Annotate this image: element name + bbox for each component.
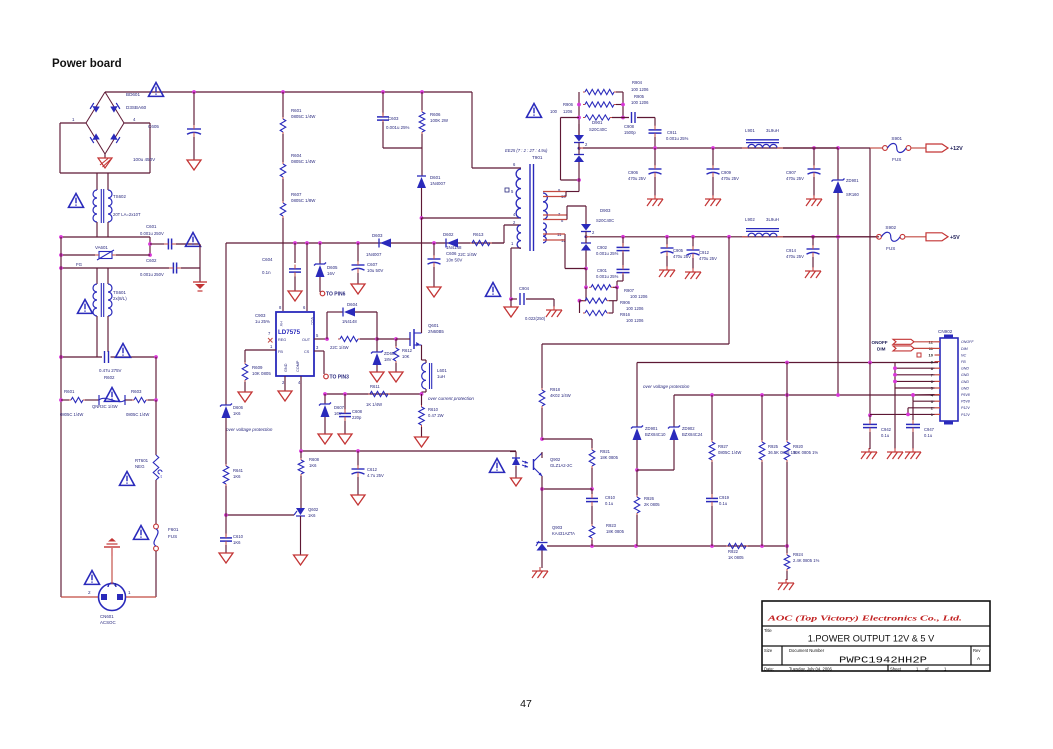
wire C914 top <box>812 237 814 246</box>
svg-text:GLZ1A2-2C: GLZ1A2-2C <box>550 463 572 468</box>
wire D606 drop <box>225 243 227 405</box>
svg-text:220p: 220p <box>352 415 362 420</box>
ground bridge <box>98 158 112 168</box>
label TS602 value <box>113 212 141 217</box>
label T901 <box>532 155 543 160</box>
junction <box>584 267 588 271</box>
junction <box>621 235 625 239</box>
D901 junction <box>578 147 581 150</box>
svg-text:C903: C903 <box>255 313 266 318</box>
wire line to C603b <box>61 356 102 358</box>
wire pin4 comp down <box>300 376 302 451</box>
svg-text:C603: C603 <box>388 116 399 121</box>
svg-text:R922: R922 <box>728 549 739 554</box>
junction <box>893 366 897 370</box>
wire C912 bottom <box>692 258 694 269</box>
port +12V <box>926 144 963 152</box>
wire pin8 <box>895 367 935 369</box>
wire pin3 <box>314 350 324 352</box>
svg-text:R925: R925 <box>768 444 779 449</box>
wire pin2 gnd <box>284 376 286 391</box>
svg-text:COMP: COMP <box>296 360 300 372</box>
junction <box>343 392 347 396</box>
wire C911 to rail <box>654 137 656 148</box>
junction <box>305 241 309 245</box>
label R921 <box>600 449 619 460</box>
transistor opto Q902 <box>522 453 542 476</box>
svg-text:C912: C912 <box>699 250 710 255</box>
label D603 <box>372 233 383 238</box>
wire pin1 stub <box>511 247 521 249</box>
ground ZD602 <box>370 372 384 382</box>
svg-text:100 1206: 100 1206 <box>631 87 649 92</box>
svg-text:Q903: Q903 <box>552 525 563 530</box>
junction <box>59 266 63 270</box>
junction <box>420 392 424 396</box>
svg-text:BD601: BD601 <box>126 92 140 97</box>
wire D605 top <box>319 243 321 264</box>
junction <box>760 393 764 397</box>
wire C601 left <box>150 243 164 245</box>
wire rail after L902 <box>783 236 838 238</box>
wire 12V rail <box>583 147 870 149</box>
label C605 value <box>133 157 156 162</box>
varistor RV601 <box>99 395 125 405</box>
label R609 <box>252 365 271 376</box>
resistor R603 <box>132 397 148 402</box>
svg-text:ONOFF: ONOFF <box>961 340 974 344</box>
wire opto E <box>541 476 543 489</box>
wire pin5 <box>314 338 327 340</box>
junction <box>590 487 594 491</box>
junction <box>325 337 329 341</box>
label D601 <box>430 175 446 186</box>
junction <box>893 380 897 384</box>
wire pin11-12 tie <box>564 234 566 269</box>
svg-text:100: 100 <box>550 109 558 114</box>
svg-text:ZD901: ZD901 <box>645 426 658 431</box>
ground CN902 gnd pins <box>887 448 903 459</box>
svg-text:C604: C604 <box>262 257 273 262</box>
wire C910 top <box>591 489 593 494</box>
svg-text:1K6: 1K6 <box>233 411 241 416</box>
label ZD904 <box>682 426 695 431</box>
label R601 value <box>60 412 83 417</box>
label C605 <box>148 124 159 129</box>
label R608 <box>309 457 320 468</box>
label R614 value <box>330 345 349 350</box>
svg-text:C911: C911 <box>667 130 677 135</box>
wire VCC to pin6 <box>306 243 308 311</box>
svg-text:3L9uH: 3L9uH <box>766 128 779 133</box>
capacitor C901 <box>617 265 630 277</box>
svg-text:Tuesday, July 04, 2006: Tuesday, July 04, 2006 <box>789 666 833 671</box>
wire D903 tap <box>586 236 590 238</box>
wire left vertical <box>60 237 62 597</box>
varistor VA601 <box>95 250 116 260</box>
label Q602 <box>308 507 319 518</box>
svg-text:R606: R606 <box>430 112 441 117</box>
wire pin9-10 tie <box>565 192 567 197</box>
svg-text:R602: R602 <box>104 375 115 380</box>
wire D901 top <box>578 124 580 135</box>
label C608 <box>352 409 363 420</box>
junction <box>584 285 588 289</box>
wire bridge to ground <box>104 154 106 158</box>
svg-text:C612: C612 <box>367 467 378 472</box>
label C942 <box>881 427 892 438</box>
svg-text:DIM: DIM <box>961 347 968 351</box>
wire pin1 gnd <box>510 299 512 307</box>
wire box bottom <box>60 172 150 174</box>
wire C606 top <box>433 243 435 256</box>
svg-text:TO PIN6: TO PIN6 <box>326 292 346 298</box>
wire jog L601b <box>422 391 427 393</box>
wire aux bus <box>226 242 504 244</box>
wire to R926 <box>636 470 638 495</box>
ground D607 <box>318 434 332 444</box>
wire pin2 <box>908 407 935 409</box>
wire LED lead <box>515 452 517 459</box>
capacitor C947 <box>906 420 920 432</box>
wire trio right top <box>616 281 618 287</box>
junction <box>785 393 789 397</box>
wire R604-R607 <box>282 179 284 201</box>
ground C907 <box>806 195 822 206</box>
zener D605 <box>314 263 326 278</box>
svg-text:TS602: TS602 <box>113 194 126 199</box>
label D604 <box>347 302 358 307</box>
svg-text:0.1u: 0.1u <box>881 433 890 438</box>
svg-text:3L9uH: 3L9uH <box>766 217 779 222</box>
wire to D601 <box>421 148 423 176</box>
ground C947 <box>905 448 921 459</box>
capacitor C612 <box>352 465 365 477</box>
junction <box>318 241 322 245</box>
label C906 <box>628 170 646 181</box>
wire C904 left <box>511 298 517 300</box>
to-pin marker TO PIN6 <box>320 291 345 297</box>
svg-text:1: 1 <box>128 590 131 595</box>
wire pin12 <box>914 341 935 343</box>
wire C907 top <box>813 148 815 166</box>
wire C603 top <box>382 92 384 115</box>
wire to S901 <box>870 147 883 149</box>
svg-text:C906: C906 <box>628 170 639 175</box>
wire pin2 stub <box>504 224 521 226</box>
svg-text:C608: C608 <box>352 409 363 414</box>
svg-text:C907: C907 <box>786 170 797 175</box>
junction <box>785 361 789 365</box>
wire to T901 pin6 <box>471 92 473 168</box>
svg-text:R904: R904 <box>632 80 643 85</box>
wire opto C <box>541 452 543 458</box>
svg-text:0.022(250): 0.022(250) <box>525 316 546 321</box>
svg-text:47: 47 <box>520 698 532 710</box>
svg-text:P12V: P12V <box>961 413 970 417</box>
svg-text:+12V: +12V <box>950 146 963 152</box>
svg-text:Size: Size <box>764 648 773 653</box>
transformer TS602 common-mode choke <box>93 189 112 223</box>
thermistor RT601 <box>153 455 162 480</box>
svg-text:D601: D601 <box>430 175 441 180</box>
svg-text:R906: R906 <box>563 102 574 107</box>
svg-text:0.001u 25%: 0.001u 25% <box>596 274 619 279</box>
label Q902 <box>550 457 561 462</box>
svg-text:CN902: CN902 <box>938 329 953 334</box>
junction <box>577 103 581 107</box>
junction <box>375 337 379 341</box>
junction <box>615 285 619 289</box>
resistor R920 <box>784 440 790 462</box>
wire pin7 stub <box>543 214 567 216</box>
svg-text:10: 10 <box>929 353 934 358</box>
wire pin9 h <box>566 191 579 193</box>
wire OVP mid <box>674 394 940 396</box>
capacitor C905 <box>661 244 674 256</box>
wire earth drop <box>199 244 201 282</box>
svg-text:GND: GND <box>961 386 969 390</box>
wire C604 top <box>294 243 296 263</box>
svg-text:FB: FB <box>278 350 283 354</box>
label R925 <box>768 444 797 455</box>
wire CS line <box>325 393 422 395</box>
svg-text:ZD901: ZD901 <box>846 178 859 183</box>
transformer TS601 common-mode choke <box>93 283 112 317</box>
zener D607 <box>319 403 331 418</box>
junction <box>621 103 625 107</box>
junction <box>785 544 789 548</box>
label R906t <box>620 300 631 305</box>
ground KA431 <box>532 567 548 578</box>
svg-text:470u 25V: 470u 25V <box>628 176 646 181</box>
label C907 <box>786 170 804 181</box>
wire RV-R603 <box>125 399 132 401</box>
svg-text:C902: C902 <box>597 245 608 250</box>
svg-text:AOC (Top Victory) Electronics: AOC (Top Victory) Electronics Co., Ltd. <box>766 614 962 623</box>
wire TS601 bottom-right <box>107 316 109 352</box>
svg-text:100 1206: 100 1206 <box>626 306 644 311</box>
svg-text:Date:: Date: <box>764 666 774 671</box>
zener D606 <box>220 404 232 419</box>
svg-text:100 1206: 100 1206 <box>630 294 648 299</box>
zener ZD602 <box>371 351 383 366</box>
wire C919 bottom <box>711 506 713 546</box>
junction <box>710 544 714 548</box>
svg-text:R601: R601 <box>291 108 302 113</box>
wire to R918 <box>541 344 543 388</box>
wire R613 right <box>492 242 504 244</box>
svg-text:KA431AZTA: KA431AZTA <box>552 531 575 536</box>
wire ZD901 bottom <box>837 193 839 237</box>
wire C912 top <box>692 237 694 247</box>
resistor R612 <box>393 346 399 363</box>
svg-text:D605: D605 <box>327 265 338 270</box>
CN902 pin 11 stub <box>935 347 941 349</box>
wire pin12 stub <box>543 239 565 241</box>
svg-text:OUT: OUT <box>302 338 311 342</box>
capacitor C605 <box>187 125 201 137</box>
svg-text:0.1u: 0.1u <box>924 433 933 438</box>
warning triangle bus <box>149 83 164 97</box>
svg-text:C947: C947 <box>924 427 935 432</box>
wire pin1 down <box>510 248 512 299</box>
svg-text:VCC: VCC <box>310 317 314 325</box>
wire C905 bottom <box>666 256 668 267</box>
label R604 <box>291 153 316 164</box>
warning CN601 <box>85 571 100 585</box>
wire R601 left lead <box>61 399 69 401</box>
wire C905 top <box>666 237 668 245</box>
wire R918 to opto <box>541 408 543 439</box>
svg-text:S901: S901 <box>891 136 902 141</box>
junction <box>635 468 639 472</box>
wire C909 bottom <box>712 177 714 196</box>
svg-text:C905: C905 <box>673 248 684 253</box>
junction <box>381 90 385 94</box>
T901 pin5 nc <box>505 188 514 194</box>
earth chassis CN601 <box>104 538 120 556</box>
wire R601-R604 <box>282 134 284 162</box>
wire TS601 top-right <box>107 268 109 284</box>
resistor R923 <box>589 524 595 540</box>
diode D903a <box>581 224 591 232</box>
svg-text:LD7575: LD7575 <box>278 329 301 336</box>
label C910 <box>605 495 616 506</box>
wire R610 top <box>421 394 423 405</box>
wire to RT601 <box>155 400 157 455</box>
junction <box>192 90 196 94</box>
wire R921 top <box>591 439 593 448</box>
svg-text:470u 25V: 470u 25V <box>699 256 717 261</box>
svg-text:VA601: VA601 <box>95 245 108 250</box>
label Q601 <box>428 323 444 334</box>
diode D604 <box>343 308 355 317</box>
wire TS602 bottom-left <box>96 222 98 237</box>
svg-text:FB: FB <box>961 360 966 364</box>
junction <box>836 146 840 150</box>
wire trio right2 <box>612 301 614 313</box>
svg-text:C602: C602 <box>146 258 157 263</box>
wire comp bus <box>301 450 516 452</box>
wire C909 top <box>712 148 714 166</box>
ground C905 <box>659 266 675 277</box>
label R601 <box>64 389 75 394</box>
junction <box>59 235 63 239</box>
svg-text:Document Number: Document Number <box>789 648 825 653</box>
CN902 pin 2 stub <box>935 407 941 409</box>
wire ZD901 top <box>837 148 839 180</box>
wire ref bus <box>547 545 787 547</box>
svg-text:D607: D607 <box>334 405 345 410</box>
capacitor C911 <box>649 126 662 138</box>
wire pin3 down <box>323 351 325 374</box>
svg-text:470u 25V: 470u 25V <box>721 176 739 181</box>
wire line from C603b <box>111 356 157 358</box>
label R922 <box>728 549 744 560</box>
junction <box>812 146 816 150</box>
svg-text:L902: L902 <box>745 217 755 222</box>
wire opto bottom <box>542 488 592 490</box>
ground C906 <box>647 195 663 206</box>
svg-text:2K 0805: 2K 0805 <box>644 502 660 507</box>
bridge rectifier BD601 <box>86 92 124 154</box>
svg-text:0.001u 25%: 0.001u 25% <box>596 251 619 256</box>
svg-text:0805C 1/4W: 0805C 1/4W <box>718 450 741 455</box>
wire R925 bottom <box>761 462 763 546</box>
resistor R610 <box>419 405 425 427</box>
wire R916 right <box>609 312 613 314</box>
resistor R901 <box>583 115 612 120</box>
wire to S902 <box>838 236 877 238</box>
label R602 <box>104 375 115 380</box>
wire C606 bottom <box>433 267 435 287</box>
resistor R903 <box>583 89 616 94</box>
resistor R606 <box>419 110 425 134</box>
wire TS602 pin top-left <box>96 173 98 190</box>
wire ZD904 drop <box>673 395 675 427</box>
svg-text:P12V: P12V <box>961 406 970 410</box>
wire T901 pin6 <box>472 167 521 169</box>
wire R606 top <box>421 92 423 110</box>
ground C914 <box>805 267 821 278</box>
ground C942 <box>861 448 877 459</box>
label D602 <box>443 232 454 237</box>
wire C607 bottom <box>357 273 359 284</box>
capacitor C607 <box>352 261 365 273</box>
capacitor C604x series <box>105 351 109 363</box>
svg-text:0.1n: 0.1n <box>262 270 271 275</box>
label BD601 <box>126 92 140 97</box>
svg-text:1K6: 1K6 <box>309 463 317 468</box>
wire zd join <box>837 394 839 396</box>
ground LD7575 GND <box>278 391 292 401</box>
wire pin6 <box>895 380 935 382</box>
label R601c <box>291 108 316 119</box>
fuse F601 <box>154 524 159 551</box>
wire 5V sense down <box>728 237 730 344</box>
wire D604 lead <box>327 311 343 313</box>
svg-text:ONOFF: ONOFF <box>872 340 888 345</box>
wire 5V rail <box>590 236 879 238</box>
label R904b <box>634 94 645 99</box>
svg-text:18K 0805: 18K 0805 <box>600 455 619 460</box>
CN902 pin 6 stub <box>935 380 941 382</box>
wire D604 right lead <box>355 311 377 313</box>
wire bridge right <box>124 122 150 124</box>
label CN601 <box>100 614 116 625</box>
label D607 <box>334 405 345 416</box>
wire D901 bottom <box>578 162 580 180</box>
wire to gate <box>377 338 396 340</box>
wire pin10 stub <box>543 196 566 198</box>
wire C612 bottom <box>357 477 359 495</box>
wire pin3 <box>913 400 935 402</box>
svg-text:GND: GND <box>961 367 969 371</box>
svg-text:1u 25%: 1u 25% <box>255 319 270 324</box>
wire main HV bus <box>105 91 472 93</box>
capacitor C604 <box>289 265 301 277</box>
wire snubber left vertical <box>578 92 580 135</box>
svg-text:R918: R918 <box>550 387 561 392</box>
wire OVP top <box>637 362 938 364</box>
svg-text:over voltage protection: over voltage protection <box>226 427 273 432</box>
wire C906 top <box>654 148 656 166</box>
junction <box>868 413 872 417</box>
warning C601 <box>186 233 201 247</box>
junction <box>394 337 398 341</box>
wire C908 right <box>637 117 655 119</box>
